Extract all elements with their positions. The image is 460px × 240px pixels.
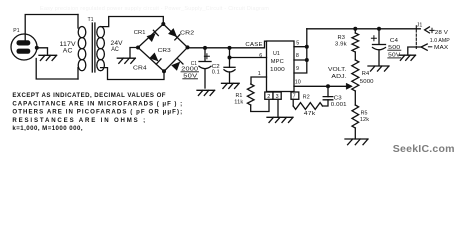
- label CR4: [133, 66, 148, 72]
- svg-text:MAX: MAX: [434, 45, 448, 51]
- node C1 junction: [203, 46, 207, 50]
- pin box 7: [291, 92, 299, 100]
- label +28V 1.0 AMP MAX: [430, 30, 450, 51]
- label CR3: [158, 48, 171, 54]
- pin label 6: [259, 53, 262, 59]
- op-amp regulator U1 MPC1000 body: [267, 41, 295, 92]
- svg-text:28 V: 28 V: [435, 30, 448, 36]
- svg-text:k=1,000, M=1000 000,: k=1,000, M=1000 000,: [12, 125, 82, 132]
- svg-text:U1: U1: [273, 51, 280, 57]
- svg-text:CASE: CASE: [245, 42, 262, 48]
- label 24V AC: [111, 41, 123, 53]
- ground chassis at J1: [400, 55, 416, 60]
- svg-text:MPC: MPC: [271, 59, 284, 65]
- wire secondary top to bridge: [101, 17, 164, 27]
- label 117V AC: [60, 42, 76, 55]
- label R3 3.9k: [335, 35, 347, 47]
- node C3 wiper junction: [326, 84, 330, 88]
- wire plug hot to top rail: [25, 15, 78, 41]
- ground chassis at plug: [39, 55, 57, 60]
- svg-text:1: 1: [258, 71, 261, 77]
- watermark SeekIC.com: [393, 144, 455, 155]
- svg-text:9: 9: [296, 66, 299, 72]
- svg-text:R3: R3: [338, 35, 346, 41]
- resistor R5: [352, 105, 359, 139]
- svg-text:5: 5: [296, 40, 299, 46]
- pin label 1: [258, 71, 261, 77]
- svg-text:47k: 47k: [304, 111, 316, 117]
- svg-text:AC: AC: [111, 47, 119, 53]
- ground chassis at pin 3: [267, 117, 293, 122]
- diode CR2: [169, 29, 180, 40]
- transformer T1 core: [92, 23, 95, 72]
- wire bridge diamond: [138, 24, 188, 71]
- node bridge right (pos): [186, 45, 190, 49]
- transformer T1 secondary winding: [97, 26, 105, 70]
- wire secondary bottom to bridge: [101, 68, 164, 80]
- label T1: [88, 17, 94, 23]
- plug P1: [11, 28, 37, 60]
- potentiometer R4: [352, 60, 359, 105]
- node C2 junction: [228, 46, 232, 50]
- wire R1 to pin 2: [251, 99, 269, 111]
- connector J1 minus contact: [421, 44, 427, 50]
- wire pin 6 input: [230, 57, 267, 59]
- label VOLT ADJ: [328, 67, 347, 80]
- svg-text:C4: C4: [390, 38, 398, 44]
- svg-text:8: 8: [296, 53, 299, 59]
- node C4 junction: [377, 27, 381, 31]
- svg-text:CAPACITANCE ARE IN MICROFARADS: CAPACITANCE ARE IN MICROFARADS ( μF ) ;: [12, 101, 182, 108]
- node bridge top (AC): [161, 22, 165, 26]
- diode CR1: [147, 30, 158, 41]
- svg-text:EXCEPT AS INDICATED, DECIMAL V: EXCEPT AS INDICATED, DECIMAL VALUES OF: [12, 92, 165, 99]
- label C2 0.1: [212, 64, 220, 76]
- pin box 2: [265, 92, 273, 100]
- ground chassis at C1: [197, 90, 215, 95]
- transformer T1 primary winding: [78, 15, 86, 80]
- diode CR3: [172, 59, 183, 70]
- svg-text:11k: 11k: [234, 100, 243, 106]
- pin label 9: [296, 66, 299, 72]
- svg-text:CR4: CR4: [133, 66, 148, 72]
- wire pin 1 to R1: [251, 77, 267, 84]
- ground chassis at C4: [368, 66, 389, 71]
- label CASE: [245, 42, 262, 48]
- ground chassis at C2: [222, 83, 240, 88]
- node pin8 tie: [305, 58, 309, 62]
- svg-text:R2: R2: [303, 94, 310, 100]
- wire pins 5 8 9 tie: [294, 29, 307, 73]
- svg-text:0.1: 0.1: [212, 70, 220, 76]
- svg-text:VOLT.: VOLT.: [328, 67, 347, 73]
- node plug ground lug: [35, 46, 39, 50]
- svg-text:R1: R1: [236, 93, 243, 99]
- label R2 47k: [303, 94, 316, 117]
- connector J1 plus contact: [425, 27, 430, 33]
- label R5 12k: [360, 110, 369, 122]
- svg-text:117V: 117V: [60, 42, 76, 48]
- notes text block: [12, 92, 182, 132]
- svg-text:10: 10: [295, 80, 301, 86]
- label plus: [430, 28, 434, 32]
- label C1 2000 50V: [181, 61, 199, 80]
- node R3 junction: [353, 27, 357, 31]
- label R4 5000: [360, 71, 374, 85]
- svg-text:R4: R4: [362, 71, 370, 77]
- svg-text:2: 2: [267, 94, 270, 100]
- node bridge bottom (AC): [162, 69, 166, 73]
- svg-text:C3: C3: [334, 95, 342, 101]
- pin label 8: [296, 53, 299, 59]
- wire positive rail to regulator case: [188, 41, 267, 48]
- label CR2: [180, 31, 194, 37]
- pin label 5: [296, 40, 299, 46]
- svg-text:SeekIC.com: SeekIC.com: [393, 144, 455, 155]
- pin box 3: [273, 92, 281, 100]
- svg-text:ADJ.: ADJ.: [331, 74, 347, 80]
- resistor R1: [247, 84, 254, 105]
- svg-text:1000: 1000: [270, 67, 285, 73]
- svg-text:3.9k: 3.9k: [335, 42, 347, 48]
- svg-text:CR3: CR3: [158, 48, 171, 54]
- connector J1 dashed mate line: [415, 26, 417, 49]
- label minus: [428, 46, 431, 48]
- wire bridge neg to chassis: [130, 48, 138, 58]
- label U1 MPC 1000: [270, 51, 285, 73]
- svg-text:CR1: CR1: [134, 30, 146, 36]
- svg-text:AC: AC: [63, 49, 73, 55]
- wiper arrow: [346, 83, 352, 89]
- svg-text:6: 6: [259, 53, 262, 59]
- wire pin 3 to chassis: [277, 99, 279, 117]
- svg-text:Easy precision regulated power: Easy precision regulated power supply ci…: [40, 6, 269, 12]
- svg-text:P1: P1: [13, 28, 20, 34]
- wire R2 to C3: [323, 100, 329, 106]
- svg-text:1.0 AMP: 1.0 AMP: [430, 38, 450, 44]
- wire pin 7 to R2: [292, 99, 294, 106]
- capacitor C1: [199, 48, 211, 88]
- label C3 0.001: [331, 95, 347, 107]
- svg-text:CR2: CR2: [180, 31, 194, 37]
- wire plug ground: [37, 48, 48, 54]
- capacitor C4: [371, 29, 385, 66]
- resistor R3: [352, 29, 359, 60]
- resistor R2: [293, 103, 322, 110]
- svg-text:J1: J1: [417, 22, 423, 28]
- node pin5 tie: [305, 45, 309, 49]
- svg-text:T1: T1: [88, 17, 94, 23]
- svg-text:12k: 12k: [360, 117, 369, 123]
- svg-text:0.001: 0.001: [331, 102, 347, 108]
- svg-text:OTHERS ARE IN PICOFARADS ( pF: OTHERS ARE IN PICOFARADS ( pF OR μμF);: [12, 109, 182, 116]
- wire plug neutral to bottom rail: [36, 59, 78, 80]
- capacitor C3: [323, 86, 333, 100]
- wire pin 10 to pot wiper: [294, 85, 347, 87]
- node pin6 junction: [228, 56, 232, 60]
- node bridge left (neg): [136, 46, 140, 50]
- wire J1 return: [408, 47, 421, 55]
- diode CR4: [150, 53, 161, 64]
- svg-text:R5: R5: [361, 110, 368, 116]
- capacitor C2: [224, 48, 235, 83]
- label C4 500 50V: [388, 38, 401, 59]
- ground chassis at R5: [345, 139, 368, 145]
- label CR1: [134, 30, 146, 36]
- wire output rail: [307, 28, 421, 30]
- label R1 11k: [234, 93, 243, 106]
- pin label 10: [295, 80, 301, 86]
- svg-text:5000: 5000: [360, 79, 374, 85]
- svg-text:RESISTANCES ARE IN OHMS ;: RESISTANCES ARE IN OHMS ;: [12, 117, 145, 124]
- label J1: [417, 22, 423, 28]
- ground chassis at bridge: [117, 58, 135, 63]
- faint page header text: [40, 6, 269, 12]
